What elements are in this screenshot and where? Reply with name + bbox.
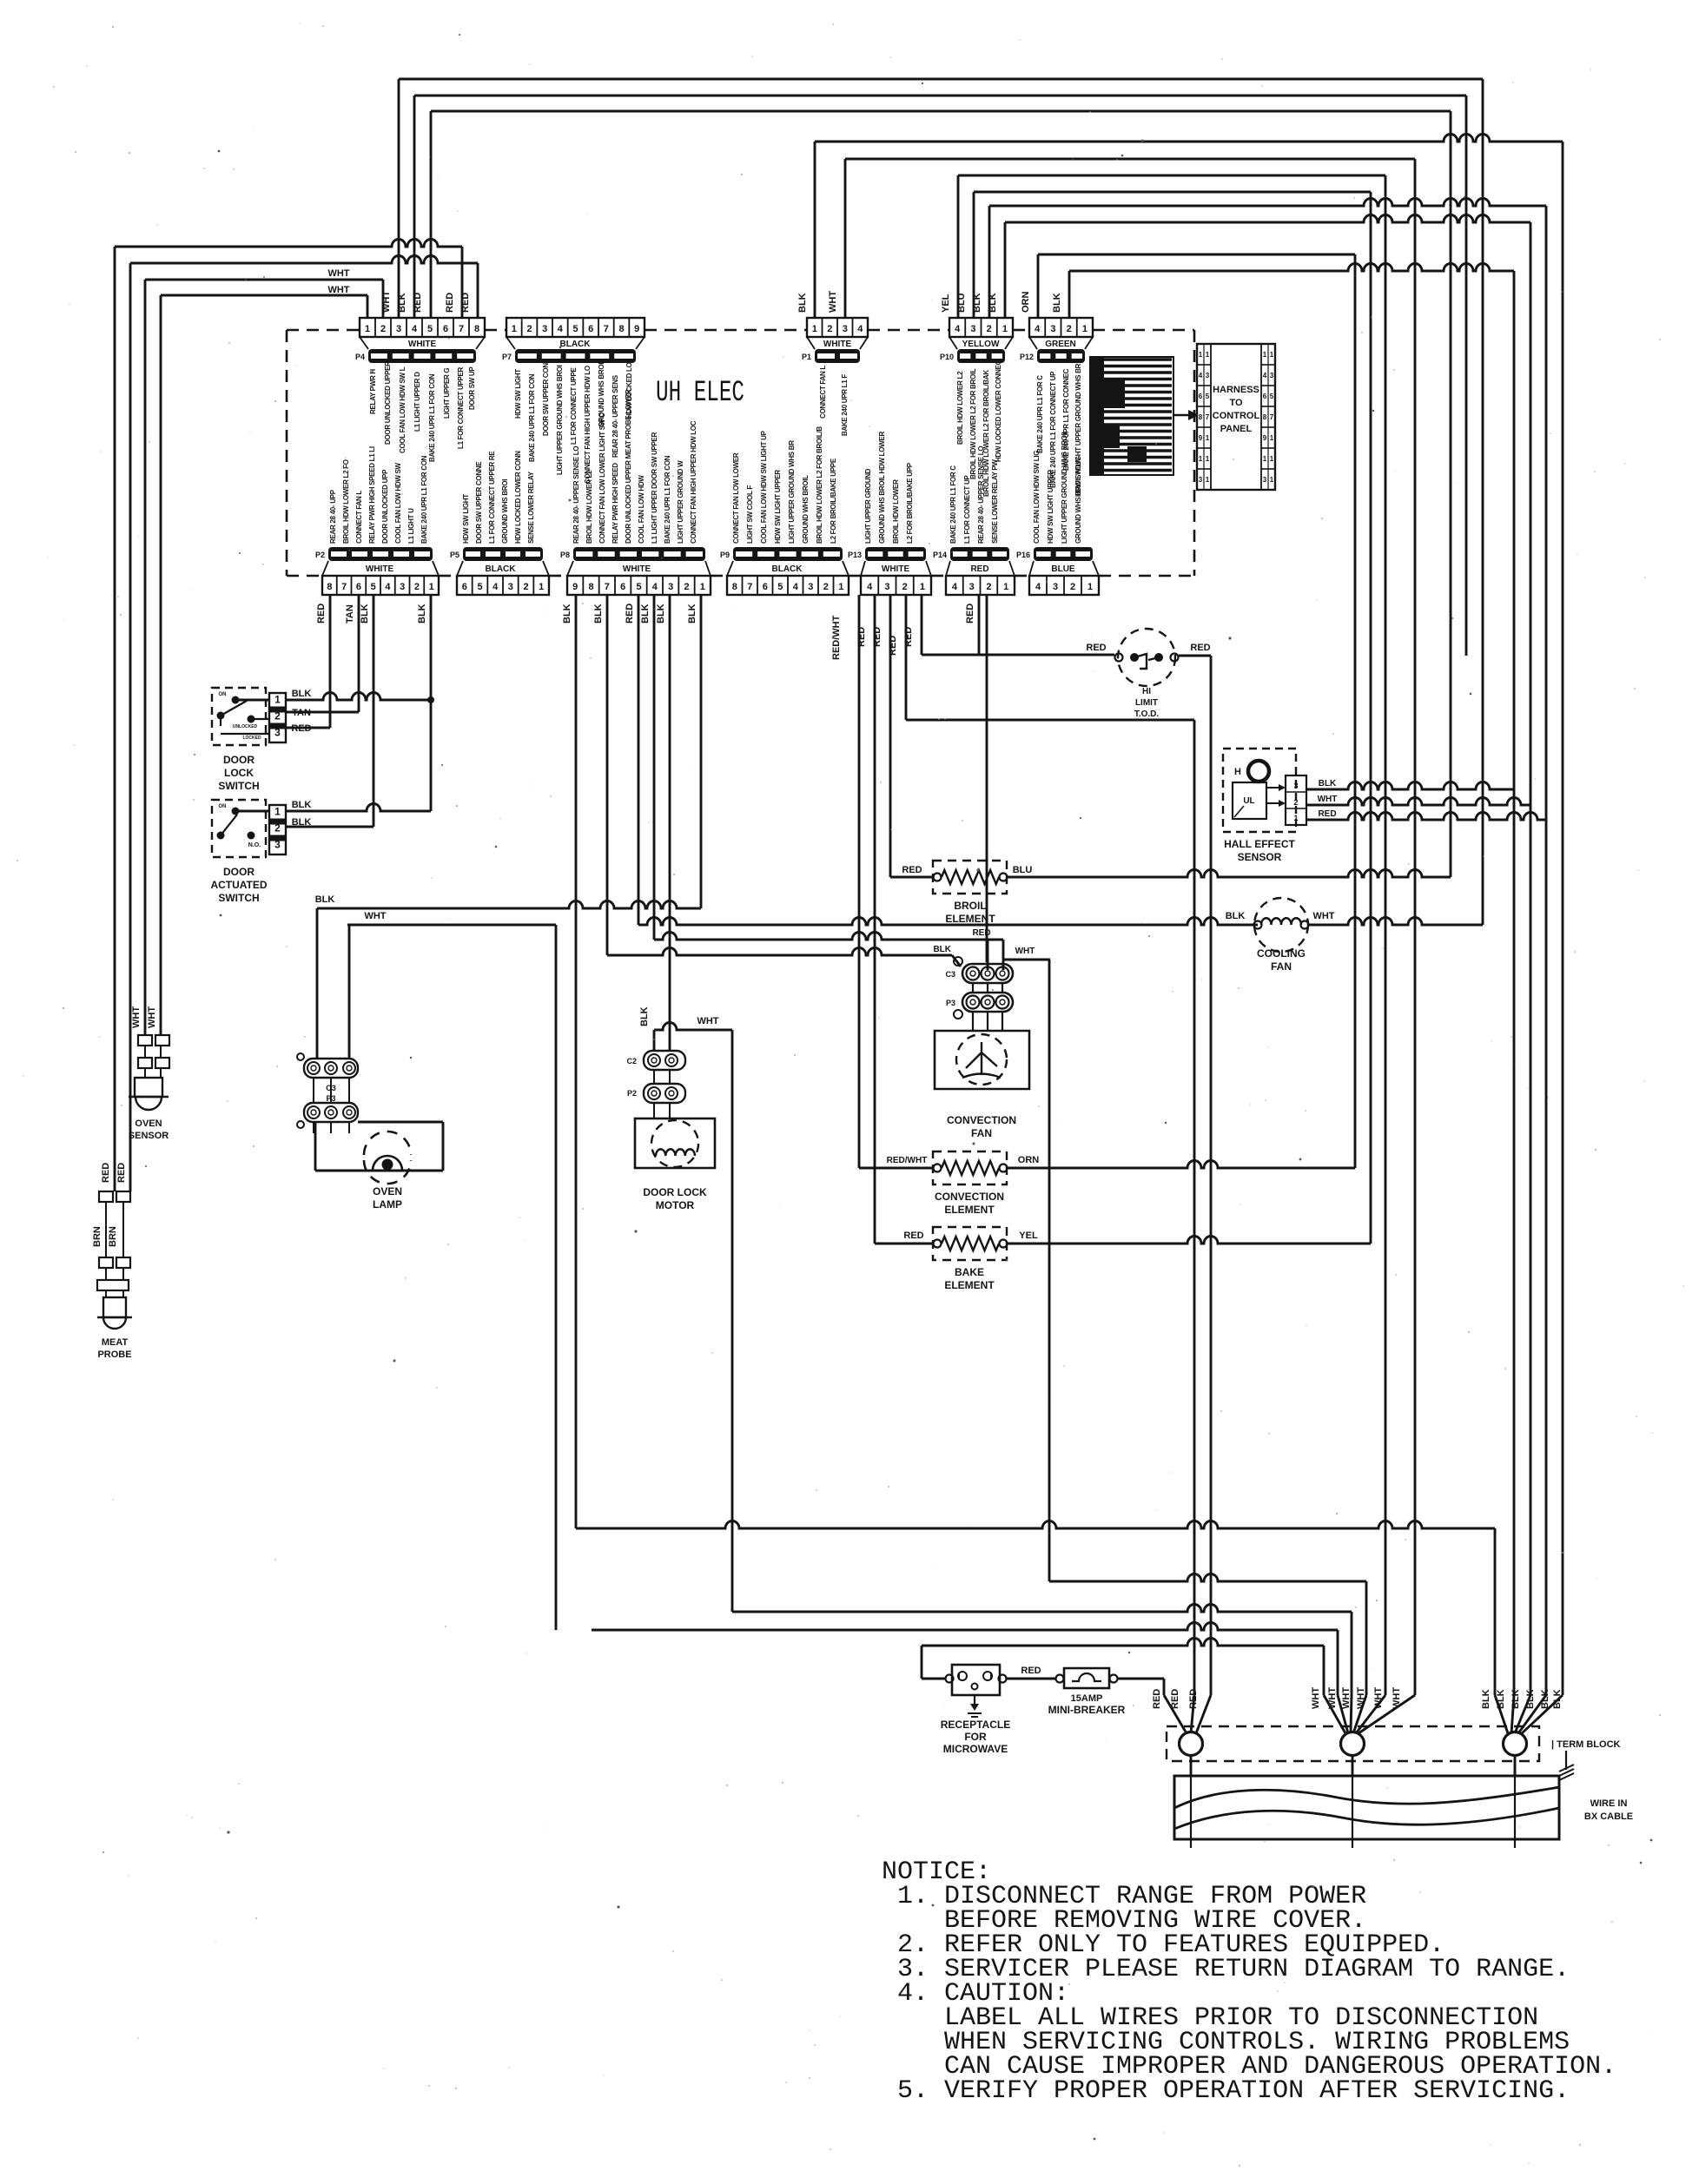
svg-text:BLK: BLK bbox=[687, 604, 697, 624]
svg-text:3: 3 bbox=[668, 582, 673, 592]
svg-text:4: 4 bbox=[867, 582, 873, 592]
svg-text:COOL FAN LOW HDW SW: COOL FAN LOW HDW SW bbox=[394, 462, 402, 544]
svg-text:2: 2 bbox=[827, 324, 832, 334]
svg-text:REAR 28 40- UPPER SENSE LO: REAR 28 40- UPPER SENSE LO bbox=[572, 446, 580, 544]
svg-text:1: 1 bbox=[1002, 324, 1008, 334]
svg-text:WHT: WHT bbox=[1356, 1687, 1366, 1709]
svg-text:CONTROL: CONTROL bbox=[1213, 411, 1260, 421]
svg-text:8: 8 bbox=[1263, 413, 1267, 421]
svg-text:1: 1 bbox=[1003, 582, 1008, 592]
svg-text:1: 1 bbox=[812, 324, 817, 334]
svg-text:LIGHT UPPER GROUND WHS BROIL: LIGHT UPPER GROUND WHS BROIL bbox=[1061, 429, 1068, 544]
svg-text:WHT: WHT bbox=[1318, 795, 1338, 804]
svg-text:DOOR SW UPPER CON: DOOR SW UPPER CON bbox=[542, 363, 550, 436]
svg-text:WHT: WHT bbox=[1327, 1687, 1338, 1709]
svg-text:BLK: BLK bbox=[1481, 1689, 1491, 1709]
svg-text:REAR 28 40- UPPER SENSE LO: REAR 28 40- UPPER SENSE LO bbox=[977, 446, 985, 544]
svg-text:DOOR UNLOCKED UPPER MEAT PROBE: DOOR UNLOCKED UPPER MEAT PROBE LOWER bbox=[625, 389, 632, 544]
svg-text:CONNECT FAN HIGH UPPER HDW LOC: CONNECT FAN HIGH UPPER HDW LOC bbox=[690, 420, 697, 544]
svg-text:RED/WHT: RED/WHT bbox=[887, 1156, 928, 1165]
svg-text:L2 FOR BROIL/BAKE UPP: L2 FOR BROIL/BAKE UPP bbox=[906, 462, 914, 544]
svg-text:4: 4 bbox=[558, 324, 564, 334]
svg-text:3: 3 bbox=[396, 324, 401, 334]
svg-text:DOOR UNLOCKED UPPER: DOOR UNLOCKED UPPER bbox=[384, 361, 392, 445]
svg-text:2: 2 bbox=[414, 582, 420, 592]
svg-text:ON: ON bbox=[219, 804, 227, 809]
svg-text:3: 3 bbox=[542, 324, 547, 334]
svg-text:L2 FOR BROIL/BAKE UPPE: L2 FOR BROIL/BAKE UPPE bbox=[830, 458, 837, 544]
svg-text:HI: HI bbox=[1142, 687, 1151, 696]
svg-text:3: 3 bbox=[1050, 324, 1055, 334]
svg-text:3: 3 bbox=[808, 582, 813, 592]
svg-text:1: 1 bbox=[1270, 476, 1274, 484]
svg-text:WHITE: WHITE bbox=[408, 340, 437, 349]
svg-text:SENSE LOWER RELAY: SENSE LOWER RELAY bbox=[527, 471, 535, 544]
svg-text:6: 6 bbox=[620, 582, 625, 592]
svg-text:BAKE 240 UPR L1 FOR C: BAKE 240 UPR L1 FOR C bbox=[1036, 375, 1044, 453]
svg-text:4: 4 bbox=[385, 582, 391, 592]
svg-text:WHITE: WHITE bbox=[823, 340, 852, 349]
svg-text:BROIL: BROIL bbox=[954, 900, 986, 912]
svg-text:L1 FOR CONNECT UPPE: L1 FOR CONNECT UPPE bbox=[570, 367, 578, 445]
svg-text:BAKE 240 UPR L1 F: BAKE 240 UPR L1 F bbox=[841, 374, 849, 436]
svg-text:RED: RED bbox=[903, 627, 914, 647]
svg-text:WHITE: WHITE bbox=[882, 564, 910, 574]
svg-text:3: 3 bbox=[1263, 476, 1267, 484]
svg-text:ORN: ORN bbox=[1018, 1155, 1040, 1165]
svg-text:WHT: WHT bbox=[697, 1016, 718, 1026]
svg-text:7: 7 bbox=[1270, 413, 1274, 421]
svg-text:RED: RED bbox=[872, 627, 883, 647]
svg-text:1: 1 bbox=[1270, 351, 1274, 359]
svg-text:9: 9 bbox=[1199, 434, 1203, 442]
svg-text:SENSOR: SENSOR bbox=[1238, 851, 1282, 863]
svg-text:RED: RED bbox=[101, 1163, 111, 1183]
svg-text:BLU: BLU bbox=[1013, 865, 1033, 875]
svg-text:BROIL HDW LOWER: BROIL HDW LOWER bbox=[892, 479, 900, 544]
svg-text:PROBE: PROBE bbox=[97, 1349, 131, 1360]
svg-text:9: 9 bbox=[634, 324, 639, 334]
svg-text:5: 5 bbox=[371, 582, 376, 592]
svg-text:SENSOR: SENSOR bbox=[129, 1131, 169, 1141]
svg-text:DOOR: DOOR bbox=[223, 754, 255, 766]
svg-text:DOOR LOCK: DOOR LOCK bbox=[643, 1186, 707, 1198]
svg-text:9: 9 bbox=[572, 582, 578, 592]
svg-text:MEAT: MEAT bbox=[102, 1337, 129, 1348]
svg-text:8: 8 bbox=[474, 324, 479, 334]
svg-text:P16: P16 bbox=[1016, 551, 1030, 559]
svg-text:RED: RED bbox=[856, 627, 867, 647]
svg-text:BLK: BLK bbox=[397, 293, 407, 313]
svg-text:BLU: BLU bbox=[956, 293, 967, 313]
svg-text:ELEMENT: ELEMENT bbox=[944, 1204, 995, 1216]
svg-text:2: 2 bbox=[523, 582, 528, 592]
svg-text:TAN: TAN bbox=[292, 708, 311, 718]
svg-text:BROIL HDW LOWER L2 FOR BROIL/B: BROIL HDW LOWER L2 FOR BROIL/B bbox=[816, 426, 823, 544]
svg-text:N.O.: N.O. bbox=[248, 842, 261, 848]
svg-text:5: 5 bbox=[777, 582, 783, 592]
svg-text:WIRE IN: WIRE IN bbox=[1590, 1798, 1628, 1809]
svg-text:BAKE 240 UPR L1 FOR CON: BAKE 240 UPR L1 FOR CON bbox=[420, 455, 428, 544]
svg-text:1: 1 bbox=[838, 582, 843, 592]
svg-text:SWITCH: SWITCH bbox=[218, 780, 259, 792]
svg-text:FOR: FOR bbox=[964, 1731, 987, 1743]
svg-text:8: 8 bbox=[588, 582, 593, 592]
svg-text:BLK: BLK bbox=[640, 604, 651, 624]
svg-text:RED: RED bbox=[413, 293, 423, 313]
svg-text:CONNECT FAN LOW LOWER LIGHT SW: CONNECT FAN LOW LOWER LIGHT SW C bbox=[598, 412, 606, 544]
svg-text:WHT: WHT bbox=[327, 268, 349, 279]
svg-text:GREEN: GREEN bbox=[1045, 340, 1076, 349]
svg-text:WHT: WHT bbox=[1373, 1687, 1384, 1709]
svg-text:4: 4 bbox=[1199, 372, 1203, 379]
svg-text:4: 4 bbox=[1035, 324, 1041, 334]
svg-text:C3: C3 bbox=[945, 970, 955, 979]
svg-text:BLK: BLK bbox=[656, 604, 666, 624]
svg-text:LIGHT UPPER GROUND: LIGHT UPPER GROUND bbox=[864, 468, 872, 544]
svg-text:TAN: TAN bbox=[345, 604, 355, 624]
svg-text:BLK: BLK bbox=[292, 689, 312, 699]
svg-text:7: 7 bbox=[1206, 413, 1210, 421]
svg-text:RED: RED bbox=[625, 604, 635, 624]
svg-text:TO: TO bbox=[1229, 398, 1243, 408]
svg-text:UL: UL bbox=[1243, 796, 1254, 806]
svg-text:ACTUATED: ACTUATED bbox=[210, 879, 267, 891]
svg-text:2: 2 bbox=[684, 582, 689, 592]
svg-text:OVEN: OVEN bbox=[135, 1118, 162, 1129]
svg-text:3: 3 bbox=[1270, 372, 1274, 379]
svg-text:RED: RED bbox=[291, 723, 311, 734]
svg-text:FAN: FAN bbox=[1271, 960, 1292, 973]
svg-text:HDW SW LIGHT: HDW SW LIGHT bbox=[462, 494, 470, 544]
svg-text:MICROWAVE: MICROWAVE bbox=[943, 1743, 1008, 1755]
svg-text:RED: RED bbox=[1086, 643, 1106, 653]
svg-text:1: 1 bbox=[1199, 351, 1203, 359]
svg-text:BLK: BLK bbox=[1052, 293, 1062, 313]
svg-text:3: 3 bbox=[970, 324, 975, 334]
svg-text:L1 FOR CONNECT UPPER RE: L1 FOR CONNECT UPPER RE bbox=[488, 451, 496, 544]
svg-text:2: 2 bbox=[1293, 798, 1298, 807]
svg-text:BLK: BLK bbox=[360, 604, 370, 624]
svg-text:BRN: BRN bbox=[108, 1226, 118, 1247]
svg-text:MINI-BREAKER: MINI-BREAKER bbox=[1048, 1704, 1126, 1716]
svg-text:L1 LIGHT UPPER D: L1 LIGHT UPPER D bbox=[413, 372, 421, 432]
svg-text:WHT: WHT bbox=[1311, 1687, 1321, 1709]
svg-text:OVEN: OVEN bbox=[373, 1185, 402, 1198]
svg-text:2: 2 bbox=[1070, 582, 1075, 592]
svg-text:1: 1 bbox=[1263, 351, 1267, 359]
svg-text:1: 1 bbox=[1206, 434, 1210, 442]
svg-text:COOL FAN LOW HDW: COOL FAN LOW HDW bbox=[638, 475, 645, 544]
svg-text:BAKE 240 UPR L1 FOR C: BAKE 240 UPR L1 FOR C bbox=[949, 465, 957, 544]
svg-text:UNLOCKED: UNLOCKED bbox=[233, 724, 258, 729]
svg-text:BX CABLE: BX CABLE bbox=[1584, 1811, 1633, 1822]
svg-text:FAN: FAN bbox=[971, 1127, 992, 1139]
svg-text:4: 4 bbox=[1263, 372, 1267, 379]
svg-text:P9: P9 bbox=[720, 551, 730, 559]
svg-text:L1 LIGHT U: L1 LIGHT U bbox=[407, 508, 415, 544]
svg-text:HDW SW LIGHT: HDW SW LIGHT bbox=[514, 369, 522, 419]
svg-text:ON: ON bbox=[219, 692, 227, 697]
svg-text:4: 4 bbox=[652, 582, 658, 592]
svg-text:COOL FAN LOW HDW SW L: COOL FAN LOW HDW SW L bbox=[399, 366, 407, 453]
svg-text:WHT: WHT bbox=[364, 911, 386, 921]
svg-text:COOLING: COOLING bbox=[1257, 947, 1306, 960]
svg-text:RED: RED bbox=[1318, 809, 1336, 819]
svg-text:YEL: YEL bbox=[1019, 1231, 1038, 1241]
svg-text:RED: RED bbox=[316, 604, 327, 624]
svg-text:BLK: BLK bbox=[315, 894, 335, 905]
svg-text:BRN: BRN bbox=[92, 1226, 102, 1247]
svg-text:WHT: WHT bbox=[1392, 1687, 1402, 1709]
svg-text:1: 1 bbox=[1206, 476, 1210, 484]
svg-text:6: 6 bbox=[443, 324, 448, 334]
svg-text:CONNECT FAN LOW LOWER: CONNECT FAN LOW LOWER bbox=[732, 452, 740, 544]
svg-text:7: 7 bbox=[605, 582, 610, 592]
svg-text:WHT: WHT bbox=[327, 285, 349, 295]
svg-text:RED: RED bbox=[1190, 643, 1210, 653]
svg-text:1: 1 bbox=[429, 582, 434, 592]
svg-text:1: 1 bbox=[920, 582, 925, 592]
svg-text:5: 5 bbox=[427, 324, 433, 334]
svg-text:BLK: BLK bbox=[1525, 1689, 1536, 1709]
svg-text:H: H bbox=[1234, 767, 1241, 777]
svg-text:2: 2 bbox=[274, 821, 281, 834]
svg-text:CONNECT FAN L: CONNECT FAN L bbox=[355, 491, 363, 544]
svg-text:RED: RED bbox=[965, 604, 975, 624]
svg-text:6: 6 bbox=[356, 582, 361, 592]
svg-text:BLK: BLK bbox=[972, 293, 982, 313]
svg-text:3: 3 bbox=[274, 838, 281, 850]
svg-text:HDW SW LIGHT UPPER: HDW SW LIGHT UPPER bbox=[774, 470, 782, 544]
svg-text:LOCK: LOCK bbox=[224, 767, 254, 779]
svg-text:RED: RED bbox=[903, 1231, 923, 1241]
svg-text:BAKE: BAKE bbox=[955, 1266, 984, 1278]
svg-text:BLK: BLK bbox=[988, 293, 998, 313]
svg-text:UH ELEC: UH ELEC bbox=[656, 377, 744, 410]
svg-text:BLK: BLK bbox=[1540, 1689, 1550, 1709]
svg-text:1: 1 bbox=[274, 693, 281, 705]
svg-text:HALL EFFECT: HALL EFFECT bbox=[1224, 838, 1295, 850]
svg-text:1: 1 bbox=[1270, 434, 1274, 442]
svg-text:GROUND WHS BROIL HDW LOWER: GROUND WHS BROIL HDW LOWER bbox=[878, 432, 886, 544]
svg-text:1: 1 bbox=[1270, 455, 1274, 463]
svg-text:BAKE 240 UPR L1 FOR CON: BAKE 240 UPR L1 FOR CON bbox=[664, 455, 671, 544]
svg-text:3: 3 bbox=[274, 726, 281, 738]
svg-text:BROIL HDW LOWER L2 FOR BROIL: BROIL HDW LOWER L2 FOR BROIL bbox=[969, 368, 977, 479]
svg-text:5: 5 bbox=[636, 582, 641, 592]
svg-text:DOOR SW UPPER CONNE: DOOR SW UPPER CONNE bbox=[475, 461, 483, 544]
svg-text:L1 LIGHT UPPER DOOR SW UPPER: L1 LIGHT UPPER DOOR SW UPPER bbox=[651, 432, 658, 544]
svg-text:P2: P2 bbox=[627, 1089, 637, 1098]
svg-text:ELEMENT: ELEMENT bbox=[944, 1279, 995, 1291]
svg-text:BAKE 240 UPR L1 FOR CON: BAKE 240 UPR L1 FOR CON bbox=[528, 373, 536, 462]
svg-text:DOOR UNLOCKED UPP: DOOR UNLOCKED UPP bbox=[381, 469, 389, 544]
svg-text:2: 2 bbox=[526, 324, 532, 334]
svg-text:RED/WHT: RED/WHT bbox=[831, 615, 842, 660]
svg-text:RECEPTACLE: RECEPTACLE bbox=[941, 1719, 1010, 1731]
svg-text:SENSE LOWER RELAY PW: SENSE LOWER RELAY PW bbox=[991, 459, 999, 544]
svg-text:GROUND WHS BROIL HDW: GROUND WHS BROIL HDW bbox=[1074, 458, 1082, 544]
svg-text:6: 6 bbox=[588, 324, 593, 334]
svg-text:3: 3 bbox=[1206, 372, 1210, 379]
svg-text:LIGHT UPPER GROUND WHS BROI: LIGHT UPPER GROUND WHS BROI bbox=[556, 365, 564, 475]
svg-text:6: 6 bbox=[462, 582, 467, 592]
svg-text:6: 6 bbox=[1263, 393, 1267, 400]
svg-text:DOOR: DOOR bbox=[223, 866, 255, 878]
svg-text:P13: P13 bbox=[848, 551, 862, 559]
svg-text:7: 7 bbox=[747, 582, 752, 592]
svg-text:CONVECTION: CONVECTION bbox=[935, 1191, 1004, 1203]
svg-text:1: 1 bbox=[1206, 351, 1210, 359]
svg-text:5: 5 bbox=[477, 582, 482, 592]
svg-text:HDW LOCKED LOWER CONN: HDW LOCKED LOWER CONN bbox=[514, 451, 522, 544]
svg-text:5. VERIFY PROPER OPERATION AFT: 5. VERIFY PROPER OPERATION AFTER SERVICI… bbox=[882, 2076, 1570, 2106]
svg-text:5: 5 bbox=[1206, 393, 1210, 400]
svg-text:3: 3 bbox=[1053, 582, 1058, 592]
svg-text:2: 2 bbox=[987, 324, 992, 334]
svg-text:1: 1 bbox=[539, 582, 544, 592]
svg-text:3: 3 bbox=[843, 324, 848, 334]
svg-text:T.O.D.: T.O.D. bbox=[1134, 709, 1160, 719]
svg-text:2: 2 bbox=[1067, 324, 1072, 334]
svg-text:LIGHT UPPER GROUND WHS BR: LIGHT UPPER GROUND WHS BR bbox=[788, 440, 796, 544]
svg-text:COOL FAN LOW HDW SW LIG: COOL FAN LOW HDW SW LIG bbox=[1033, 451, 1041, 544]
svg-text:4: 4 bbox=[857, 324, 863, 334]
svg-text:BLK: BLK bbox=[797, 293, 808, 313]
svg-text:WHT: WHT bbox=[828, 291, 838, 313]
svg-text:C2: C2 bbox=[626, 1057, 637, 1066]
svg-text:PANEL: PANEL bbox=[1220, 424, 1253, 434]
svg-text:BLK: BLK bbox=[562, 604, 572, 624]
svg-text:WHT: WHT bbox=[1341, 1687, 1352, 1709]
svg-text:CONNECT FAN L: CONNECT FAN L bbox=[819, 366, 827, 419]
svg-text:BLK: BLK bbox=[1511, 1689, 1521, 1709]
svg-text:HARNESS: HARNESS bbox=[1213, 385, 1259, 395]
svg-text:WHITE: WHITE bbox=[623, 564, 651, 574]
svg-text:P10: P10 bbox=[940, 353, 954, 361]
svg-text:LIGHT SW COOL F: LIGHT SW COOL F bbox=[746, 485, 754, 544]
svg-text:GROUND WHS BROIL: GROUND WHS BROIL bbox=[802, 475, 810, 544]
svg-text:3: 3 bbox=[400, 582, 405, 592]
svg-text:4: 4 bbox=[955, 324, 961, 334]
svg-text:P7: P7 bbox=[502, 353, 512, 361]
svg-text:| TERM BLOCK: | TERM BLOCK bbox=[1551, 1739, 1621, 1750]
svg-text:2: 2 bbox=[274, 709, 281, 722]
svg-text:BLK: BLK bbox=[593, 604, 604, 624]
svg-text:9: 9 bbox=[1263, 434, 1267, 442]
svg-text:BLACK: BLACK bbox=[772, 564, 803, 574]
svg-text:WHT: WHT bbox=[1015, 947, 1035, 956]
svg-text:P12: P12 bbox=[1020, 353, 1034, 361]
svg-text:2: 2 bbox=[823, 582, 829, 592]
svg-text:1: 1 bbox=[274, 805, 281, 817]
svg-text:1: 1 bbox=[1087, 582, 1093, 592]
svg-text:BROIL HDW LOWER L2 FO: BROIL HDW LOWER L2 FO bbox=[342, 459, 350, 544]
svg-text:7: 7 bbox=[604, 324, 609, 334]
svg-text:4: 4 bbox=[952, 582, 958, 592]
svg-text:3: 3 bbox=[1293, 782, 1298, 790]
svg-text:1: 1 bbox=[1206, 455, 1210, 463]
svg-text:LIGHT UPPER G: LIGHT UPPER G bbox=[443, 368, 451, 419]
svg-text:RELAY PWR H: RELAY PWR H bbox=[369, 369, 377, 414]
svg-text:1: 1 bbox=[1293, 814, 1298, 822]
svg-text:4: 4 bbox=[493, 582, 499, 592]
svg-text:P1: P1 bbox=[802, 353, 811, 361]
svg-text:WHT: WHT bbox=[1312, 911, 1334, 921]
svg-text:DOOR SW UP: DOOR SW UP bbox=[468, 366, 476, 410]
svg-text:8: 8 bbox=[732, 582, 737, 592]
svg-text:RED: RED bbox=[116, 1163, 127, 1183]
svg-text:15AMP: 15AMP bbox=[1071, 1693, 1103, 1704]
svg-text:2: 2 bbox=[380, 324, 386, 334]
svg-text:WHT: WHT bbox=[381, 291, 392, 313]
svg-text:3: 3 bbox=[508, 582, 513, 592]
svg-text:RELAY PWR HIGH SPEED L1 LI: RELAY PWR HIGH SPEED L1 LI bbox=[368, 446, 376, 544]
svg-text:BLK: BLK bbox=[292, 817, 312, 828]
svg-text:COOL FAN LOW HDW SW LIGHT UP: COOL FAN LOW HDW SW LIGHT UP bbox=[760, 430, 768, 544]
svg-text:3: 3 bbox=[1199, 476, 1203, 484]
svg-text:MOTOR: MOTOR bbox=[656, 1199, 695, 1211]
svg-text:BLK: BLK bbox=[639, 1006, 650, 1026]
svg-text:5: 5 bbox=[572, 324, 578, 334]
svg-text:BAKE 240 UPR L1 FOR CON: BAKE 240 UPR L1 FOR CON bbox=[428, 373, 436, 462]
svg-text:1: 1 bbox=[512, 324, 517, 334]
svg-text:RED: RED bbox=[1152, 1689, 1162, 1709]
svg-text:BROIL HDW LOWER L2: BROIL HDW LOWER L2 bbox=[956, 371, 964, 445]
svg-text:LIMIT: LIMIT bbox=[1135, 698, 1158, 708]
svg-text:1: 1 bbox=[365, 324, 370, 334]
svg-text:RED: RED bbox=[1021, 1666, 1041, 1676]
svg-text:BROIL HDW LOWER L2: BROIL HDW LOWER L2 bbox=[585, 470, 593, 544]
svg-text:2: 2 bbox=[902, 582, 908, 592]
svg-text:HDW SW LIGHT UPPER: HDW SW LIGHT UPPER bbox=[1047, 470, 1054, 544]
svg-text:7: 7 bbox=[341, 582, 347, 592]
svg-text:CONVECTION: CONVECTION bbox=[947, 1114, 1016, 1126]
svg-text:BLK: BLK bbox=[1226, 911, 1246, 921]
svg-text:8: 8 bbox=[618, 324, 624, 334]
svg-text:RED: RED bbox=[445, 293, 455, 313]
svg-text:RED: RED bbox=[902, 865, 922, 875]
svg-text:ELEMENT: ELEMENT bbox=[945, 913, 995, 925]
svg-text:LAMP: LAMP bbox=[373, 1198, 402, 1211]
svg-text:P5: P5 bbox=[450, 551, 459, 559]
svg-text:RED: RED bbox=[1170, 1689, 1180, 1709]
svg-text:YELLOW: YELLOW bbox=[962, 340, 1000, 349]
svg-text:WHT: WHT bbox=[131, 1006, 142, 1028]
svg-text:BLK: BLK bbox=[1552, 1689, 1563, 1709]
svg-text:RED: RED bbox=[460, 293, 471, 313]
svg-text:8: 8 bbox=[1199, 413, 1203, 421]
svg-text:6: 6 bbox=[763, 582, 768, 592]
svg-text:4: 4 bbox=[1035, 582, 1041, 592]
svg-text:1: 1 bbox=[700, 582, 705, 592]
svg-text:1: 1 bbox=[1263, 455, 1267, 463]
svg-text:CONNECT FAN HIGH UPPER HDW LO: CONNECT FAN HIGH UPPER HDW LO bbox=[584, 366, 592, 484]
svg-text:RED: RED bbox=[970, 564, 988, 574]
svg-text:REAR 28 40- UPP: REAR 28 40- UPP bbox=[329, 489, 337, 544]
svg-text:2: 2 bbox=[986, 582, 991, 592]
svg-text:P14: P14 bbox=[933, 551, 947, 559]
svg-text:3: 3 bbox=[969, 582, 975, 592]
svg-text:BLK: BLK bbox=[933, 945, 951, 954]
svg-text:SWITCH: SWITCH bbox=[218, 892, 259, 904]
svg-text:5: 5 bbox=[1270, 393, 1274, 400]
svg-text:L1 FOR CONNECT UPPER: L1 FOR CONNECT UPPER bbox=[457, 366, 465, 449]
svg-text:RED: RED bbox=[1188, 1689, 1199, 1709]
svg-text:4: 4 bbox=[793, 582, 799, 592]
svg-text:P2: P2 bbox=[315, 551, 325, 559]
